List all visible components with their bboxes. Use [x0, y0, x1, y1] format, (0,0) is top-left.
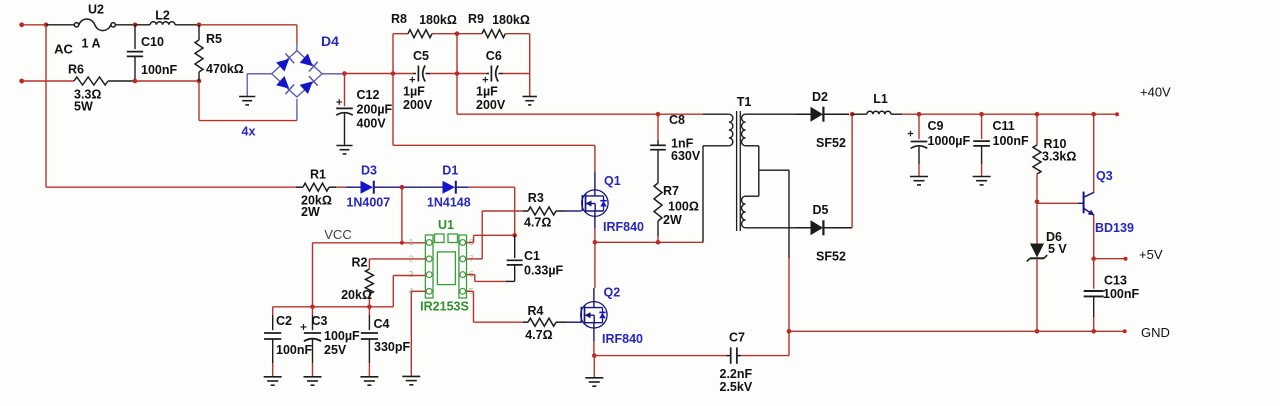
label R8 — [391, 12, 407, 26]
svg-text:2.5kV: 2.5kV — [720, 380, 753, 394]
svg-text:1N4148: 1N4148 — [427, 196, 471, 210]
node junction C13 bottom — [1091, 329, 1096, 334]
label 180kΩ R9 — [492, 13, 530, 27]
label C6 — [486, 49, 502, 63]
wire — [891, 113, 902, 115]
wire — [746, 113, 796, 115]
label C12 — [357, 88, 380, 102]
label Q2 — [604, 286, 621, 300]
svg-text:R9: R9 — [468, 12, 484, 26]
svg-text:D3: D3 — [361, 164, 377, 178]
plus C9 — [908, 131, 914, 137]
label AC — [54, 42, 73, 57]
wire — [313, 242, 427, 244]
svg-text:D1: D1 — [442, 164, 458, 178]
wire — [566, 321, 582, 323]
label SF52 D2 — [816, 136, 846, 150]
svg-text:C2: C2 — [276, 314, 292, 328]
wire pin2 — [369, 258, 425, 260]
wire — [296, 43, 298, 51]
bridge rectifier D4 — [272, 51, 322, 97]
transformer T1 primary winding — [729, 114, 733, 146]
resistor R7 — [654, 183, 662, 242]
label R5 — [206, 32, 222, 46]
wire — [594, 172, 596, 190]
transformer T1 secondary top winding — [742, 114, 746, 146]
svg-text:5 V: 5 V — [1048, 242, 1067, 256]
svg-text:400V: 400V — [357, 117, 387, 131]
wire — [741, 355, 789, 357]
wire — [593, 288, 595, 302]
svg-text:R7: R7 — [663, 184, 679, 198]
resistor R2 — [365, 259, 373, 307]
node junction C12 — [342, 71, 347, 76]
pin number 2 — [409, 253, 414, 263]
wire pin5 — [467, 291, 524, 322]
wire — [345, 73, 414, 75]
wire — [746, 146, 759, 170]
label D2 — [812, 90, 828, 104]
label R7 — [663, 184, 679, 198]
node junction R5 top — [197, 23, 202, 28]
capacitor C11 — [973, 114, 990, 176]
label 3.3Ω — [74, 88, 101, 102]
wire — [919, 113, 982, 115]
transformer T1 secondary bottom winding — [742, 196, 746, 228]
node AC line input bottom-left terminal — [19, 79, 74, 84]
ground C9 — [910, 177, 928, 185]
svg-text:R8: R8 — [391, 12, 407, 26]
resistor R9 — [482, 30, 505, 38]
label 100Ω — [668, 200, 699, 214]
wire — [593, 328, 595, 341]
label R10 — [1044, 137, 1067, 151]
wire — [566, 210, 582, 212]
plus C3 — [301, 324, 307, 330]
label SF52 D5 — [816, 250, 846, 264]
wire — [851, 114, 853, 228]
label IRF840 Q1 — [603, 220, 644, 234]
wire — [852, 113, 867, 115]
label 1000µF — [928, 134, 971, 148]
wire pin7 — [467, 211, 524, 259]
svg-text:D5: D5 — [813, 203, 829, 217]
svg-text:1µF: 1µF — [403, 85, 425, 99]
label D4 — [321, 33, 339, 49]
label 1 A — [82, 37, 101, 51]
wire pin6 — [467, 275, 507, 282]
svg-text:630V: 630V — [671, 149, 701, 163]
svg-text:C5: C5 — [413, 49, 429, 63]
wire — [593, 356, 595, 378]
wire — [788, 258, 790, 356]
pin number 1 — [409, 237, 414, 247]
label 100nF C13 — [1103, 287, 1139, 301]
label +5V — [1139, 247, 1163, 262]
label 0.33µF — [524, 264, 564, 278]
svg-text:D4: D4 — [321, 33, 339, 49]
node junction top AC — [44, 23, 49, 28]
svg-text:4x: 4x — [242, 125, 256, 139]
wire — [703, 113, 729, 115]
wire pin3 — [393, 276, 425, 307]
wire — [902, 113, 919, 115]
svg-text:1N4007: 1N4007 — [346, 196, 390, 210]
node junction C8 top — [656, 112, 661, 117]
pin number 7 — [469, 253, 474, 263]
svg-text:1µF: 1µF — [476, 85, 498, 99]
node junction VCC vert — [400, 241, 404, 245]
node junction C3 top — [310, 305, 315, 310]
node junction mid bus — [455, 71, 460, 76]
svg-text:3.3kΩ: 3.3kΩ — [1042, 150, 1076, 164]
label U2 — [88, 3, 104, 17]
ground C11 — [973, 177, 991, 185]
node junction R2 bottom — [367, 305, 372, 310]
svg-text:20kΩ: 20kΩ — [341, 288, 372, 302]
diode D6 zener — [1027, 244, 1047, 262]
svg-text:BD139: BD139 — [1095, 221, 1134, 235]
node junction R7 bottom — [656, 240, 661, 245]
svg-text:180kΩ: 180kΩ — [419, 13, 457, 27]
ground C4 — [360, 377, 378, 385]
wire — [392, 34, 394, 146]
wire — [746, 227, 796, 229]
svg-text:AC: AC — [54, 42, 73, 57]
label 5 V — [1048, 242, 1067, 256]
wire — [108, 80, 135, 82]
svg-text:R3: R3 — [528, 191, 544, 205]
wire — [199, 24, 297, 26]
capacitor C10 — [127, 25, 143, 81]
diode D3 — [346, 181, 390, 194]
capacitor C1 — [506, 235, 523, 281]
node junction R5 bottom — [197, 79, 202, 84]
resistor R5 — [195, 25, 203, 81]
label 2.2nF — [720, 367, 753, 381]
node junction C10 bottom — [133, 79, 138, 84]
wire — [46, 24, 74, 26]
wire pin4 — [411, 291, 425, 376]
label 1µF C5 — [403, 85, 425, 99]
svg-text:VCC: VCC — [324, 227, 351, 242]
label 1nF — [671, 137, 694, 151]
label 20kΩ R1 — [301, 193, 332, 207]
node junction C11 — [979, 112, 984, 117]
svg-text:200V: 200V — [476, 98, 506, 112]
capacitor C6 — [486, 66, 503, 82]
svg-text:5W: 5W — [74, 100, 93, 114]
svg-text:C6: C6 — [486, 49, 502, 63]
svg-text:U2: U2 — [88, 3, 104, 17]
svg-text:4.7Ω: 4.7Ω — [525, 328, 552, 342]
label GND — [1141, 325, 1170, 340]
label U1 — [438, 218, 454, 232]
wire — [401, 187, 403, 243]
ground C2 — [264, 377, 282, 385]
label L1 — [873, 92, 888, 106]
svg-text:1000µF: 1000µF — [928, 134, 971, 148]
svg-text:C3: C3 — [312, 314, 328, 328]
wire — [593, 341, 595, 356]
node terminal +40V — [1115, 112, 1119, 116]
label 20kΩ R2 — [341, 288, 372, 302]
svg-text:C13: C13 — [1104, 274, 1127, 288]
node junction Q3 collector — [1091, 112, 1096, 117]
wire — [1037, 202, 1078, 204]
label 200V C5 — [403, 98, 433, 112]
wire — [389, 186, 423, 188]
svg-text:U1: U1 — [438, 218, 454, 232]
svg-text:C11: C11 — [993, 119, 1015, 133]
label C1 — [524, 249, 540, 263]
wire — [456, 34, 458, 115]
plus C5 — [410, 77, 416, 83]
label 1µF C6 — [476, 85, 498, 99]
label R2 — [352, 256, 368, 270]
label 200µF — [357, 103, 393, 117]
label VCC — [324, 227, 351, 242]
ground pin4 — [402, 376, 420, 384]
ground C12 — [336, 146, 352, 154]
label +40V — [1140, 85, 1171, 100]
resistor R1 — [296, 183, 336, 191]
svg-text:3: 3 — [409, 269, 414, 279]
svg-text:200µF: 200µF — [357, 103, 393, 117]
svg-text:R4: R4 — [528, 304, 544, 318]
svg-text:D2: D2 — [812, 90, 828, 104]
wire — [505, 33, 529, 35]
wire — [595, 241, 703, 243]
node AC line input top-left terminal — [19, 22, 46, 27]
plus C12 — [336, 99, 342, 105]
wire — [982, 113, 1117, 115]
label 4x — [242, 125, 256, 139]
wire — [45, 25, 47, 187]
label R3 — [528, 191, 544, 205]
wire — [312, 243, 314, 307]
svg-text:C7: C7 — [729, 331, 745, 345]
wire — [594, 145, 596, 172]
label R9 — [468, 12, 484, 26]
svg-text:100nF: 100nF — [276, 343, 312, 357]
pin number 4 — [409, 286, 414, 296]
svg-text:C4: C4 — [374, 317, 390, 331]
wire — [296, 99, 298, 121]
svg-text:SF52: SF52 — [816, 250, 846, 264]
label C11 — [993, 119, 1015, 133]
svg-text:0.33µF: 0.33µF — [524, 264, 564, 278]
label 200V C6 — [476, 98, 506, 112]
node junction GND tap — [787, 329, 792, 334]
svg-text:180kΩ: 180kΩ — [492, 13, 530, 27]
svg-text:SF52: SF52 — [816, 136, 846, 150]
svg-text:GND: GND — [1141, 325, 1170, 340]
pin number 8 — [469, 237, 474, 247]
label R4 — [528, 304, 544, 318]
transistor Q3 — [1078, 192, 1094, 216]
label C2 — [276, 314, 292, 328]
wire — [393, 33, 408, 35]
wire — [115, 24, 135, 26]
node terminal +5V — [1124, 257, 1128, 261]
label T1 — [737, 95, 752, 109]
resistor R3 — [523, 207, 566, 215]
label C13 — [1104, 274, 1127, 288]
svg-text:1 A: 1 A — [82, 37, 101, 51]
transistor Q1 — [582, 190, 608, 216]
node junction D3 D1 — [400, 185, 405, 190]
wire — [336, 186, 346, 188]
svg-text:C9: C9 — [928, 119, 944, 133]
label 330pF — [374, 340, 410, 354]
wire — [313, 306, 394, 308]
label 2.5kV — [720, 380, 753, 394]
wire — [457, 113, 703, 115]
diode D5 — [795, 220, 852, 235]
label 25V — [324, 343, 347, 357]
label 3.3kΩ — [1042, 150, 1076, 164]
label C10 — [141, 35, 164, 49]
inductor L1 — [867, 111, 891, 114]
wire pin8 — [467, 235, 515, 242]
svg-text:470kΩ: 470kΩ — [206, 62, 244, 76]
wire — [393, 144, 595, 146]
wire — [1036, 202, 1038, 244]
wire — [594, 355, 726, 357]
capacitor C7 — [727, 347, 742, 363]
node junction C10 top — [133, 23, 138, 28]
node junction Q1 source — [593, 240, 598, 245]
wire — [702, 146, 704, 243]
wire — [514, 187, 516, 235]
capacitor C4 — [361, 307, 378, 377]
wire — [135, 80, 199, 82]
label R6 — [68, 63, 84, 77]
node junction R8 R9 — [455, 31, 460, 36]
capacitor C12 — [336, 74, 353, 146]
svg-text:Q3: Q3 — [1096, 169, 1113, 183]
svg-text:IRF840: IRF840 — [603, 220, 644, 234]
capacitor C8 — [650, 114, 666, 183]
label IR2153S — [420, 300, 469, 314]
wire — [322, 73, 343, 75]
wire — [1093, 215, 1095, 259]
label 100nF — [141, 63, 177, 77]
wire — [1093, 114, 1095, 192]
pin number 6 — [469, 269, 474, 279]
resistor R8 — [408, 30, 432, 38]
svg-text:100nF: 100nF — [141, 63, 177, 77]
diode D1 — [424, 181, 469, 194]
svg-text:2W: 2W — [301, 205, 320, 219]
ground bridge — [239, 97, 255, 105]
svg-text:25V: 25V — [324, 343, 347, 357]
wire — [594, 216, 596, 228]
wire — [529, 34, 531, 97]
ground Q2 source — [585, 378, 603, 386]
wire — [273, 306, 313, 308]
label 4.7Ω R3 — [524, 216, 551, 230]
svg-text:L1: L1 — [873, 92, 888, 106]
svg-text:C12: C12 — [357, 88, 380, 102]
svg-text:C8: C8 — [669, 113, 685, 127]
label C3 — [312, 314, 328, 328]
svg-text:100nF: 100nF — [1103, 287, 1139, 301]
svg-text:R1: R1 — [310, 167, 326, 181]
transistor Q2 — [581, 302, 607, 328]
node junction C1 top — [512, 233, 517, 238]
capacitor C5 — [413, 66, 430, 82]
svg-text:C1: C1 — [524, 249, 540, 263]
transformer T1 core — [737, 111, 741, 231]
label 1N4007 — [346, 196, 390, 210]
svg-text:330pF: 330pF — [374, 340, 410, 354]
label C5 — [413, 49, 429, 63]
capacitor C13 — [1084, 259, 1104, 332]
wire — [46, 186, 296, 188]
svg-text:100nF: 100nF — [993, 134, 1029, 148]
wire — [503, 73, 530, 75]
capacitor C2 — [264, 307, 281, 377]
svg-text:100Ω: 100Ω — [668, 200, 699, 214]
wire — [1094, 258, 1126, 260]
label 2W — [663, 213, 682, 227]
svg-text:R5: R5 — [206, 32, 222, 46]
ground C5 C6 — [523, 97, 537, 105]
wire — [703, 145, 729, 147]
wire — [135, 24, 150, 26]
pin number 3 — [409, 269, 414, 279]
label 1N4148 — [427, 196, 471, 210]
node junction R10 top — [1035, 112, 1040, 117]
wire — [1036, 258, 1038, 331]
node junction C9 — [917, 112, 922, 117]
inductor L2 — [150, 22, 175, 25]
capacitor C3 — [304, 307, 321, 377]
wire GND rail — [789, 330, 1125, 332]
wire — [746, 170, 759, 196]
label Q3 — [1096, 169, 1113, 183]
resistor R10 — [1033, 114, 1041, 202]
wire — [594, 242, 596, 288]
label IRF840 Q2 — [602, 332, 643, 346]
label C9 — [928, 119, 944, 133]
svg-text:Q2: Q2 — [604, 286, 621, 300]
wire — [199, 120, 297, 122]
resistor R4 — [523, 318, 566, 326]
label D6 — [1046, 230, 1062, 244]
wire — [247, 74, 272, 97]
svg-text:+40V: +40V — [1140, 85, 1171, 100]
svg-text:Q1: Q1 — [604, 174, 621, 188]
op-amp U1 IR2153S IC body — [425, 234, 466, 298]
label C7 — [729, 331, 745, 345]
svg-text:R2: R2 — [352, 256, 368, 270]
label Q1 — [604, 174, 621, 188]
resistor R6 — [74, 77, 108, 85]
svg-text:IRF840: IRF840 — [602, 332, 643, 346]
label 400V — [357, 117, 387, 131]
svg-text:C10: C10 — [141, 35, 164, 49]
svg-text:T1: T1 — [737, 95, 752, 109]
node junction bus x393 — [391, 71, 396, 76]
wire — [430, 73, 486, 75]
svg-text:1: 1 — [409, 237, 414, 247]
node junction +5V — [1091, 256, 1096, 261]
label 4.7Ω R4 — [525, 328, 552, 342]
svg-text:L2: L2 — [155, 9, 170, 23]
